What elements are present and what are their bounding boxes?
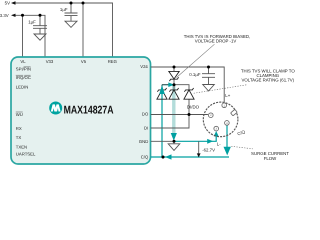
svg-text:MAX14827A: MAX14827A <box>64 105 114 117</box>
svg-text:TX: TX <box>16 135 22 140</box>
svg-text:VOLTAGE DROP -1V: VOLTAGE DROP -1V <box>195 39 237 44</box>
svg-text:L+: L+ <box>225 93 230 98</box>
svg-text:V24: V24 <box>140 64 148 69</box>
svg-text:V5: V5 <box>81 59 87 64</box>
svg-text:1µF: 1µF <box>60 7 68 12</box>
svg-text:VL: VL <box>20 59 26 64</box>
svg-text:RX: RX <box>16 126 22 131</box>
svg-text:TXEN: TXEN <box>16 144 27 149</box>
svg-text:REG: REG <box>108 59 117 64</box>
svg-text:FLOW: FLOW <box>264 156 277 161</box>
svg-text:VOLTAGE RATING (61.7V): VOLTAGE RATING (61.7V) <box>241 77 294 82</box>
svg-text:3.3V: 3.3V <box>0 13 9 18</box>
svg-text:C/Q: C/Q <box>141 155 149 160</box>
svg-text:IRQ/OC: IRQ/OC <box>16 75 31 80</box>
svg-text:5V: 5V <box>5 1 10 6</box>
svg-text:DO: DO <box>142 112 149 117</box>
svg-text:-62.7V: -62.7V <box>202 147 215 152</box>
svg-text:0.1µF: 0.1µF <box>189 72 201 77</box>
svg-text:DI: DI <box>144 126 148 131</box>
svg-text:V33: V33 <box>46 59 54 64</box>
svg-text:SPI/PIN: SPI/PIN <box>16 67 31 72</box>
svg-text:LEDIN: LEDIN <box>16 84 29 89</box>
svg-text:UARTSEL: UARTSEL <box>16 151 36 156</box>
svg-text:GND: GND <box>139 139 148 144</box>
svg-text:L-: L- <box>217 142 221 147</box>
svg-text:DI/DO: DI/DO <box>187 104 200 109</box>
svg-text:1µF: 1µF <box>28 19 36 24</box>
svg-text:WU: WU <box>16 112 23 117</box>
